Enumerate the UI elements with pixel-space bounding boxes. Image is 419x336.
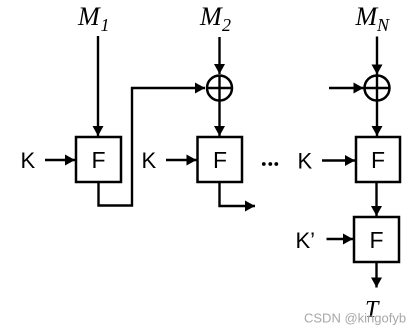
- function block F4: [354, 217, 399, 262]
- wire F3 to F4: [375, 182, 377, 216]
- svg-text:N: N: [376, 15, 390, 35]
- wire MN to XOR3: [376, 37, 378, 75]
- wire K to F2: [166, 159, 197, 161]
- function block F1: [76, 137, 121, 182]
- wire K prime to F4: [327, 238, 354, 240]
- svg-text:M: M: [355, 2, 379, 31]
- svg-text:F: F: [213, 147, 227, 173]
- svg-text:M: M: [77, 2, 101, 31]
- svg-text:M: M: [199, 2, 223, 31]
- svg-text:F: F: [91, 147, 105, 173]
- svg-text:K’: K’: [296, 228, 316, 253]
- wire F2 output: [220, 182, 256, 206]
- svg-text:F: F: [371, 147, 385, 173]
- wire XOR3 to F3: [376, 101, 378, 137]
- wire M2 to XOR2: [218, 37, 220, 74]
- svg-text:K: K: [142, 148, 157, 173]
- label MN: [355, 2, 391, 35]
- wire K to F1: [45, 159, 75, 161]
- svg-text:CSDN @kingofyb: CSDN @kingofyb: [304, 311, 406, 326]
- label M1: [77, 2, 110, 35]
- wire F4 output to T: [375, 262, 377, 288]
- svg-text:F: F: [369, 227, 383, 253]
- wire chaining input to XOR3: [329, 87, 364, 89]
- svg-text:1: 1: [101, 15, 110, 35]
- ellipsis dots: [262, 162, 278, 166]
- wire F1 output to XOR2: [99, 88, 206, 206]
- svg-text:2: 2: [222, 15, 231, 35]
- wire XOR2 to F2: [218, 101, 220, 137]
- xor adder XOR3: [365, 76, 390, 101]
- svg-text:K: K: [21, 148, 36, 173]
- wire K to F3: [322, 159, 355, 161]
- function block F2: [198, 137, 243, 182]
- label M2: [199, 2, 231, 35]
- wire M1 to F1: [97, 36, 99, 136]
- svg-text:K: K: [298, 149, 313, 174]
- xor adder XOR2: [207, 76, 232, 101]
- function block F3: [356, 137, 400, 182]
